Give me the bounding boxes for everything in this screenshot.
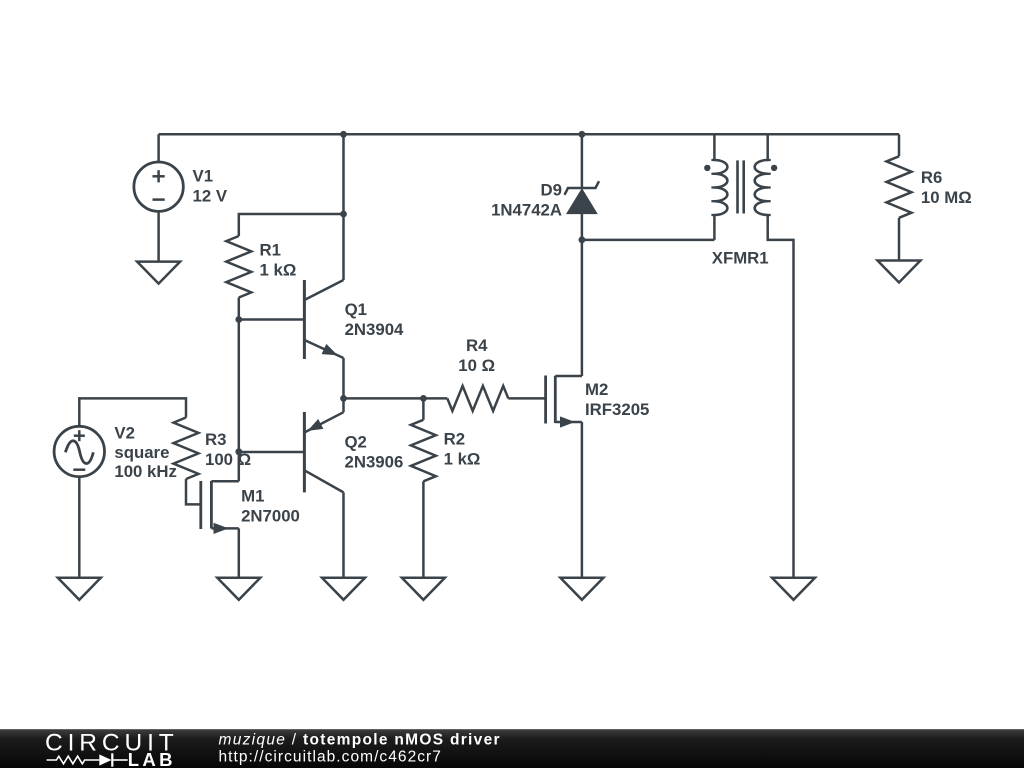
wire secondary bottom to ground (768, 215, 794, 578)
svg-text:V1: V1 (193, 166, 214, 185)
wire R1 top feed (239, 214, 344, 236)
svg-text:square: square (114, 443, 169, 462)
footer title line (219, 732, 501, 749)
voltage source V2 square (54, 426, 104, 476)
svg-text:100 Ω: 100 Ω (205, 450, 251, 469)
svg-text:V2: V2 (114, 423, 135, 442)
svg-text:10 Ω: 10 Ω (458, 356, 495, 375)
svg-text:D9: D9 (541, 181, 562, 200)
voltage source V1 (134, 162, 183, 211)
label M1 (241, 486, 300, 525)
ground under R6 (878, 260, 921, 283)
wire V2 top lead (79, 398, 186, 426)
wire V2 bottom lead (78, 477, 81, 578)
svg-text:XFMR1: XFMR1 (712, 249, 769, 268)
resistor R4 (447, 386, 508, 411)
ground under R2 (402, 577, 445, 600)
label Q1 (345, 300, 404, 339)
wire Q2 emitter vertical (342, 398, 345, 412)
wire primary bottom lead (713, 215, 716, 240)
transistor Q1 2N3904 (304, 280, 343, 359)
wire emitter output row (344, 397, 424, 400)
ground under M2 (560, 577, 603, 600)
svg-text:10 MΩ: 10 MΩ (921, 188, 972, 207)
svg-text:R4: R4 (466, 336, 488, 355)
label V1 (193, 166, 228, 205)
label R6 (921, 168, 972, 207)
wire base-rail vertical (238, 320, 241, 452)
node output / R2 / R4 (420, 395, 427, 402)
wire M2 source vertical (581, 422, 584, 578)
zener diode D9 1N4742A (565, 181, 600, 213)
polarity dot primary (704, 165, 710, 171)
transistor M2 IRF3205 (546, 376, 582, 428)
label R4 (458, 336, 495, 375)
label V2 (114, 423, 177, 481)
CircuitLab logo text CIRCUIT (45, 729, 179, 756)
CircuitLab logo text LAB (128, 749, 176, 768)
svg-text:M2: M2 (585, 380, 608, 399)
node Q1/Q2 emitter output (340, 395, 347, 402)
svg-text:12 V: 12 V (193, 186, 228, 205)
resistor R3 (174, 418, 199, 480)
svg-text:1 kΩ: 1 kΩ (260, 261, 297, 280)
label Q2 (345, 432, 404, 471)
ground under Q2 (322, 577, 365, 600)
logo doodle wire with resistor and diode (47, 753, 128, 766)
node R1/Q1 collector junction (340, 211, 347, 218)
wire R6 bottom lead (898, 218, 901, 261)
wire V1 bottom lead (157, 211, 160, 261)
node D9 anode / transformer primary (579, 236, 586, 243)
ground under M1 (217, 577, 260, 600)
resistor R6 (887, 156, 912, 218)
svg-text:2N7000: 2N7000 (241, 506, 300, 525)
svg-text:2N3904: 2N3904 (345, 320, 404, 339)
wire R2 top lead (422, 398, 425, 419)
svg-text:Q2: Q2 (345, 432, 367, 451)
svg-text:R1: R1 (260, 241, 281, 260)
label D9 (491, 181, 562, 220)
svg-text:1 kΩ: 1 kΩ (444, 450, 481, 469)
transformer XFMR1 primary winding (711, 160, 727, 215)
svg-text:http://circuitlab.com/c462cr7: http://circuitlab.com/c462cr7 (219, 749, 442, 766)
svg-text:2N3906: 2N3906 (345, 452, 404, 471)
svg-text:M1: M1 (241, 486, 264, 505)
wire V1 top lead (157, 134, 160, 162)
resistor R2 (411, 420, 436, 482)
resistor R1 (226, 236, 251, 298)
wire M1 drain vertical (238, 452, 241, 482)
label R1 (260, 241, 297, 280)
svg-text:IRF3205: IRF3205 (585, 400, 649, 419)
wire Q2 base (239, 451, 305, 454)
wire Q1 base (239, 318, 305, 321)
wire D9 cathode lead (581, 134, 584, 188)
polarity dot secondary (771, 165, 777, 171)
wire primary bottom row (582, 239, 715, 242)
svg-text:R2: R2 (444, 430, 465, 449)
node top rail / D9 (579, 131, 586, 138)
wire R4 left lead (423, 397, 447, 400)
svg-text:Q1: Q1 (345, 300, 367, 319)
wire rail to primary (582, 134, 715, 160)
footer bar (0, 729, 1024, 768)
transistor Q2 2N3906 (304, 412, 343, 492)
wire Q2 collector vertical (342, 492, 345, 577)
svg-text:LAB: LAB (128, 749, 176, 768)
svg-text:muzique / totempole nMOS drive: muzique / totempole nMOS driver (219, 732, 501, 749)
transistor M1 2N7000 (201, 481, 239, 534)
label R3 (205, 430, 251, 469)
transformer XFMR1 secondary winding (755, 160, 771, 215)
svg-text:R3: R3 (205, 430, 226, 449)
svg-text:1N4742A: 1N4742A (491, 201, 562, 220)
wire R4 right lead (508, 397, 545, 400)
label M2 (585, 380, 649, 419)
transformer core (738, 160, 744, 213)
node base rail / Q2 base / M1 drain (235, 448, 242, 455)
svg-text:100 kHz: 100 kHz (114, 462, 177, 481)
label XFMR1 (712, 249, 769, 268)
wire M1 source vertical (238, 528, 241, 577)
ground under V1 (137, 261, 180, 284)
ground under V2 (58, 577, 101, 600)
wire R2 bottom lead (422, 481, 425, 578)
wire D9 anode lead (581, 213, 584, 239)
svg-text:R6: R6 (921, 168, 942, 187)
footer url line (219, 749, 442, 766)
wire M2 drain vertical (581, 240, 584, 376)
wire R6 top lead (898, 134, 901, 156)
node R1 bottom / Q1 base (235, 316, 242, 323)
wire Q1 collector vertical (342, 214, 345, 280)
wire secondary top lead (766, 134, 769, 160)
wire top supply rail (159, 133, 899, 136)
label R2 (444, 430, 481, 469)
wire branch down to R1/Q1 node (342, 134, 345, 214)
wire R3 to M1 gate (186, 479, 201, 504)
node top rail to R1/Q1 branch (340, 131, 347, 138)
wire R1 bottom lead (238, 298, 241, 320)
wire Q1 emitter vertical (342, 358, 345, 398)
ground under secondary (772, 577, 815, 600)
